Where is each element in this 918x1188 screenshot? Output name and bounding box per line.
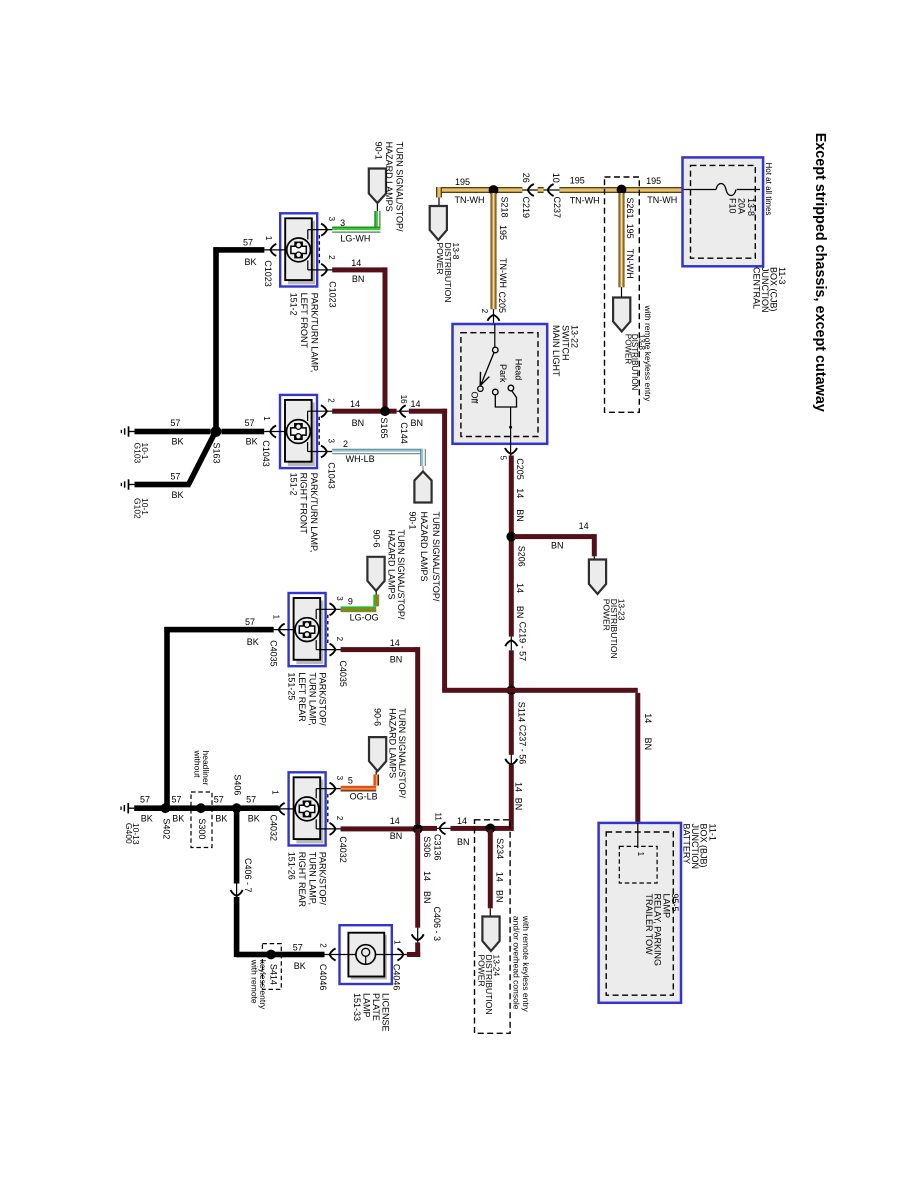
svg-text:10-1: 10-1	[140, 498, 150, 515]
svg-text:C4046: C4046	[318, 964, 328, 991]
svg-text:C4032: C4032	[269, 815, 279, 842]
svg-text:BN: BN	[390, 655, 403, 665]
svg-text:C1043: C1043	[261, 440, 271, 467]
svg-text:LEFT REAR: LEFT REAR	[297, 672, 307, 722]
svg-text:BN: BN	[515, 509, 525, 522]
svg-text:with remote: with remote	[249, 959, 259, 1004]
svg-text:90-6: 90-6	[371, 530, 381, 548]
svg-text:14: 14	[350, 399, 360, 409]
svg-text:S300: S300	[197, 818, 207, 839]
svg-text:TN-WH: TN-WH	[647, 195, 677, 205]
svg-text:13-22: 13-22	[570, 325, 580, 348]
svg-text:TURN LAMP,: TURN LAMP,	[307, 672, 317, 725]
svg-text:BK: BK	[172, 437, 184, 447]
svg-text:C4046: C4046	[392, 964, 402, 991]
svg-text:10-13: 10-13	[131, 823, 141, 845]
svg-text:1: 1	[392, 940, 401, 945]
svg-text:BN: BN	[643, 738, 653, 751]
svg-text:BN: BN	[515, 606, 525, 619]
svg-text:26: 26	[521, 173, 531, 183]
svg-text:3: 3	[340, 218, 345, 228]
svg-text:14: 14	[457, 816, 467, 826]
svg-text:195: 195	[646, 176, 661, 186]
svg-text:2: 2	[480, 309, 489, 314]
svg-text:57: 57	[243, 237, 253, 247]
svg-text:13-8: 13-8	[637, 334, 646, 351]
svg-text:14: 14	[643, 713, 653, 723]
svg-text:S402: S402	[162, 818, 172, 839]
svg-text:Except stripped chassis, excep: Except stripped chassis, except cutaway	[812, 133, 828, 412]
svg-text:BN: BN	[390, 831, 403, 841]
svg-text:BK: BK	[141, 814, 153, 824]
svg-text:C406 - 3: C406 - 3	[432, 907, 442, 942]
svg-text:Park: Park	[498, 364, 508, 383]
svg-text:BK: BK	[246, 437, 258, 447]
svg-text:11-1: 11-1	[707, 824, 717, 841]
svg-text:PARK/STOP/: PARK/STOP/	[318, 852, 328, 906]
svg-text:keyless entry: keyless entry	[258, 960, 268, 1010]
svg-text:PARK/TURN LAMP,: PARK/TURN LAMP,	[309, 293, 319, 373]
svg-text:BK: BK	[248, 814, 260, 824]
svg-text:RIGHT REAR: RIGHT REAR	[297, 852, 307, 908]
svg-text:with remote keyless entry: with remote keyless entry	[643, 305, 653, 403]
svg-text:S234: S234	[495, 838, 505, 859]
svg-text:57: 57	[293, 942, 303, 952]
svg-text:195: 195	[498, 225, 508, 240]
svg-text:MAIN LIGHT: MAIN LIGHT	[551, 325, 561, 377]
svg-text:without: without	[193, 750, 203, 779]
svg-text:BN: BN	[411, 418, 424, 428]
svg-text:S165: S165	[379, 418, 389, 439]
svg-text:13-24: 13-24	[491, 955, 501, 977]
svg-text:S414: S414	[269, 964, 279, 985]
svg-text:TURN LAMP,: TURN LAMP,	[307, 852, 317, 905]
svg-text:151-33: 151-33	[352, 993, 362, 1021]
svg-text:TURN SIGNAL/STOP/: TURN SIGNAL/STOP/	[431, 512, 441, 602]
svg-text:C4032: C4032	[338, 836, 348, 863]
svg-text:151-2: 151-2	[288, 473, 298, 496]
svg-text:BN: BN	[422, 891, 432, 904]
svg-text:BN: BN	[495, 890, 505, 903]
svg-text:C219: C219	[521, 197, 531, 219]
svg-text:TURN SIGNAL/STOP/: TURN SIGNAL/STOP/	[396, 530, 406, 620]
svg-text:151-2: 151-2	[289, 293, 299, 316]
svg-text:TRAILER TOW: TRAILER TOW	[644, 894, 654, 956]
svg-text:14: 14	[351, 258, 361, 268]
svg-text:14: 14	[390, 638, 400, 648]
svg-text:BOX (BJB): BOX (BJB)	[699, 824, 709, 868]
svg-text:S206: S206	[517, 546, 527, 567]
svg-text:TURN SIGNAL/STOP/: TURN SIGNAL/STOP/	[397, 708, 407, 798]
svg-text:LICENSE: LICENSE	[380, 993, 390, 1032]
svg-text:HAZARD LAMPS: HAZARD LAMPS	[384, 142, 394, 212]
svg-text:C205: C205	[497, 292, 507, 314]
svg-text:S406: S406	[233, 774, 243, 795]
svg-text:TN-WH: TN-WH	[498, 258, 508, 288]
svg-text:S261: S261	[625, 198, 635, 219]
svg-text:57: 57	[170, 472, 180, 482]
svg-text:2: 2	[335, 637, 344, 642]
svg-text:S114: S114	[517, 702, 527, 722]
svg-text:95-5: 95-5	[670, 894, 680, 912]
svg-text:headliner: headliner	[201, 751, 211, 786]
svg-text:16: 16	[399, 395, 408, 404]
svg-text:BN: BN	[352, 274, 365, 284]
svg-text:PARK/STOP/: PARK/STOP/	[318, 672, 328, 726]
svg-text:PARK/TURN LAMP,: PARK/TURN LAMP,	[309, 473, 319, 553]
svg-text:2: 2	[327, 255, 336, 260]
svg-text:OG-LB: OG-LB	[350, 792, 378, 802]
svg-text:10: 10	[551, 173, 561, 183]
svg-text:2: 2	[318, 943, 327, 948]
svg-text:57: 57	[170, 418, 180, 428]
svg-text:2: 2	[327, 398, 336, 403]
svg-text:11-3: 11-3	[777, 267, 787, 284]
svg-text:F10: F10	[728, 198, 738, 214]
svg-text:1: 1	[262, 416, 271, 421]
svg-text:BN: BN	[551, 540, 564, 550]
svg-text:C1023: C1023	[263, 260, 273, 287]
svg-text:TN-WH: TN-WH	[625, 249, 635, 279]
svg-text:LG-WH: LG-WH	[340, 234, 370, 244]
svg-text:Head: Head	[514, 359, 524, 381]
svg-text:C237 - 56: C237 - 56	[518, 725, 528, 765]
svg-text:3: 3	[335, 776, 344, 781]
svg-text:C144: C144	[399, 422, 409, 444]
svg-text:57: 57	[214, 794, 224, 804]
svg-text:BK: BK	[294, 961, 306, 971]
svg-text:BN: BN	[457, 837, 470, 847]
svg-text:13-8: 13-8	[451, 243, 461, 260]
svg-text:BK: BK	[172, 814, 184, 824]
svg-text:20A: 20A	[737, 198, 747, 214]
svg-text:14: 14	[495, 872, 505, 882]
svg-text:C1043: C1043	[326, 462, 336, 489]
svg-text:5: 5	[499, 456, 508, 461]
svg-text:90-6: 90-6	[372, 708, 382, 726]
svg-text:57: 57	[246, 794, 256, 804]
svg-text:3: 3	[327, 217, 336, 222]
svg-text:2: 2	[343, 439, 348, 449]
svg-text:5: 5	[348, 776, 353, 786]
svg-text:3: 3	[327, 439, 336, 444]
svg-text:57: 57	[140, 794, 150, 804]
svg-text:TN-WH: TN-WH	[570, 195, 600, 205]
svg-text:1: 1	[271, 615, 280, 620]
svg-text:14: 14	[390, 816, 400, 826]
svg-text:C219 - 57: C219 - 57	[518, 622, 528, 662]
svg-text:LG-OG: LG-OG	[350, 612, 379, 622]
svg-text:BN: BN	[352, 418, 365, 428]
svg-text:Hot at all times: Hot at all times	[764, 163, 773, 216]
svg-text:C237: C237	[552, 197, 562, 219]
svg-text:1: 1	[271, 790, 280, 795]
svg-text:14: 14	[579, 521, 589, 531]
svg-text:BK: BK	[215, 814, 227, 824]
svg-text:S218: S218	[500, 197, 510, 218]
svg-text:C4035: C4035	[269, 640, 279, 667]
svg-text:C3136: C3136	[433, 834, 443, 861]
svg-text:HAZARD LAMPS: HAZARD LAMPS	[387, 708, 397, 778]
svg-text:TURN SIGNAL/STOP/: TURN SIGNAL/STOP/	[394, 142, 404, 232]
svg-text:1: 1	[264, 236, 273, 241]
svg-text:C1023: C1023	[327, 281, 337, 308]
svg-text:14: 14	[422, 871, 432, 881]
svg-text:BN: BN	[514, 798, 524, 811]
svg-text:11: 11	[434, 813, 443, 822]
svg-text:HAZARD LAMPS: HAZARD LAMPS	[386, 530, 396, 600]
svg-text:JUNCTION: JUNCTION	[690, 824, 700, 870]
svg-text:and/or overhead console: and/or overhead console	[511, 916, 521, 1010]
svg-text:RELAY, PARKING: RELAY, PARKING	[653, 894, 663, 967]
svg-text:90-1: 90-1	[374, 142, 384, 160]
svg-text:S163: S163	[212, 443, 222, 464]
svg-text:2: 2	[335, 816, 344, 821]
svg-text:RIGHT FRONT: RIGHT FRONT	[299, 473, 309, 535]
svg-text:1: 1	[636, 852, 645, 857]
svg-text:57: 57	[245, 617, 255, 627]
svg-text:LAMP: LAMP	[661, 894, 671, 919]
svg-text:Off: Off	[470, 392, 480, 404]
svg-text:14: 14	[515, 583, 525, 593]
svg-text:C4035: C4035	[338, 660, 348, 687]
svg-text:TN-WH: TN-WH	[455, 195, 485, 205]
svg-text:LEFT FRONT: LEFT FRONT	[299, 293, 309, 349]
svg-text:LAMP: LAMP	[361, 993, 371, 1018]
svg-text:C205: C205	[515, 458, 525, 480]
svg-text:90-1: 90-1	[407, 512, 417, 530]
svg-text:151-25: 151-25	[287, 672, 297, 700]
svg-text:14: 14	[514, 782, 524, 792]
svg-text:S306: S306	[422, 836, 432, 857]
svg-text:13-8: 13-8	[746, 198, 756, 216]
svg-text:WH-LB: WH-LB	[346, 454, 375, 464]
svg-text:BK: BK	[245, 257, 257, 267]
svg-text:195: 195	[455, 177, 470, 187]
svg-text:10-1: 10-1	[140, 443, 150, 460]
svg-text:C406 - 7: C406 - 7	[243, 858, 253, 893]
svg-text:195: 195	[570, 175, 585, 185]
svg-text:151-26: 151-26	[287, 852, 297, 880]
svg-text:PLATE: PLATE	[371, 993, 381, 1021]
svg-text:HAZARD LAMPS: HAZARD LAMPS	[419, 512, 429, 582]
svg-text:3: 3	[335, 596, 344, 601]
svg-text:57: 57	[172, 794, 182, 804]
svg-text:BK: BK	[247, 637, 259, 647]
svg-text:13-23: 13-23	[616, 599, 626, 621]
svg-text:BATTERY: BATTERY	[682, 824, 692, 865]
svg-text:BK: BK	[172, 490, 184, 500]
svg-text:195: 195	[625, 224, 635, 239]
svg-text:with remote keyless entry: with remote keyless entry	[521, 915, 531, 1013]
svg-text:SWITCH: SWITCH	[560, 325, 570, 361]
svg-text:57: 57	[245, 418, 255, 428]
svg-text:14: 14	[411, 399, 421, 409]
svg-text:9: 9	[348, 597, 353, 607]
svg-text:14: 14	[515, 488, 525, 498]
